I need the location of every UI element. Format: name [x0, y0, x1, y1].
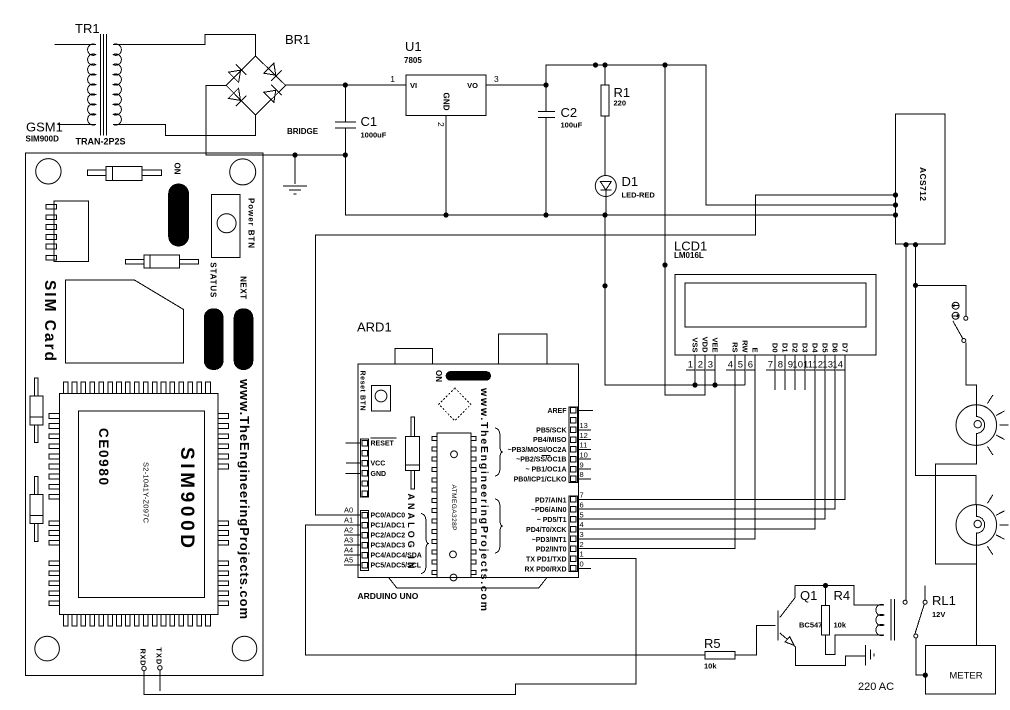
wire LCD pin13 D6 to Arduino pin6	[577, 355, 835, 509]
wire stub VCC	[346, 462, 361, 464]
svg-text:Reset BTN: Reset BTN	[359, 371, 366, 411]
node junction dot U1 GND at rail	[443, 212, 448, 217]
svg-text:10k: 10k	[704, 662, 717, 671]
svg-text:STATUS: STATUS	[209, 262, 218, 298]
svg-text:VI: VI	[410, 81, 417, 90]
brace PB group	[495, 428, 503, 476]
svg-text:BC547: BC547	[799, 621, 822, 630]
svg-text:TXD: TXD	[155, 647, 164, 665]
svg-text:D0: D0	[771, 343, 780, 353]
svg-text:6: 6	[580, 500, 584, 509]
svg-text:D6: D6	[831, 343, 840, 353]
svg-text:RL1: RL1	[932, 593, 956, 608]
svg-text:ON: ON	[434, 370, 443, 382]
IC pins right	[471, 437, 476, 575]
svg-text:12V: 12V	[932, 610, 945, 619]
svg-text:PB5/SCK: PB5/SCK	[536, 427, 566, 434]
resistor R4	[822, 586, 884, 655]
svg-text:D3: D3	[801, 343, 810, 353]
resistor on board top	[88, 166, 162, 180]
right header connector bottom (7-0)	[569, 496, 578, 572]
node junction dot VO/C2	[543, 82, 548, 87]
svg-text:LM016L: LM016L	[674, 251, 704, 260]
svg-text:Q1: Q1	[800, 588, 817, 603]
svg-text:RX PD0/RXD: RX PD0/RXD	[524, 566, 566, 573]
wire Arduino A1 to R5	[305, 525, 704, 655]
svg-text:PB4/MISO: PB4/MISO	[533, 437, 567, 444]
relay RL1 coil	[876, 599, 895, 640]
svg-text:4: 4	[728, 360, 733, 371]
svg-text:PD2/INT0: PD2/INT0	[536, 547, 567, 554]
svg-text:~PB3/MOSI/OC2A: ~PB3/MOSI/OC2A	[508, 447, 567, 454]
svg-text:PC5/ADC5/SCL: PC5/ADC5/SCL	[371, 563, 422, 570]
lamp L2 rays	[987, 495, 1008, 555]
svg-text:GND: GND	[371, 471, 387, 478]
svg-text:A1: A1	[344, 516, 353, 525]
svg-text:PC4/ADC4/SDA: PC4/ADC4/SDA	[371, 553, 422, 560]
left header connector top (RESET/VCC/GND)	[361, 439, 369, 497]
ground symbol near module	[283, 155, 307, 194]
svg-text:BR1: BR1	[285, 32, 310, 47]
svg-text:BRIDGE: BRIDGE	[287, 127, 319, 136]
svg-text:220 AC: 220 AC	[858, 681, 894, 693]
node junction dots on top rail	[593, 62, 598, 67]
svg-text:10: 10	[792, 360, 803, 371]
wire LCD pin12 D5 to Arduino pin5	[577, 355, 825, 519]
IC pins left	[432, 437, 437, 575]
ON LED black pill	[168, 184, 189, 247]
svg-text:C2: C2	[561, 105, 578, 120]
wire switch to lamp1	[966, 343, 977, 405]
wire secondary bottom to bridge bottom vertex	[113, 115, 255, 135]
svg-text:D1: D1	[781, 343, 790, 353]
svg-text:8: 8	[778, 360, 783, 371]
svg-text:LED-RED: LED-RED	[622, 191, 656, 200]
svg-text:ACS712: ACS712	[918, 167, 928, 201]
svg-text:8: 8	[580, 470, 584, 479]
svg-text:ATMEGA328P: ATMEGA328P	[450, 485, 457, 531]
svg-text:METER: METER	[949, 671, 982, 682]
mounting hole top-right	[230, 159, 256, 185]
svg-text:www.TheEngineeringProjects.com: www.TheEngineeringProjects.com	[237, 378, 252, 619]
wire LCD pin11 D4 to Arduino pin4	[577, 355, 815, 529]
svg-text:D7: D7	[841, 343, 850, 353]
Arduino ARD1	[344, 320, 593, 612]
wire stub pin0	[577, 567, 591, 569]
svg-text:S2-1041Y-Z097C: S2-1041Y-Z097C	[142, 462, 151, 524]
svg-text:1: 1	[688, 360, 693, 371]
arduino board outline	[358, 364, 579, 578]
SIM card outline	[65, 280, 183, 363]
node dot on VDD branch	[662, 262, 667, 267]
svg-text:RESET: RESET	[371, 441, 395, 448]
svg-text:RW: RW	[741, 340, 750, 353]
node junction dot C2 bottom	[543, 212, 548, 217]
wire stub GND	[346, 472, 361, 474]
svg-text:ARD1: ARD1	[357, 320, 392, 335]
svg-text:3: 3	[708, 360, 713, 371]
LED D1	[595, 174, 655, 215]
ground symbol 220AC side	[866, 645, 874, 665]
wire stub LCD pin8 D1	[784, 355, 786, 390]
node dot pin3 at ground line	[712, 382, 717, 387]
svg-text:TRAN-2P2S: TRAN-2P2S	[76, 136, 126, 146]
svg-text:A4: A4	[344, 546, 353, 555]
svg-text:~PD6/AIN0: ~PD6/AIN0	[531, 507, 567, 514]
svg-text:PC2/ADC2: PC2/ADC2	[371, 533, 406, 540]
wire ACS712 load pin1 down to relay switch	[905, 245, 907, 600]
wire U1 GND pin down to ground rail	[445, 116, 447, 216]
svg-text:PC0/ADC0: PC0/ADC0	[371, 513, 406, 520]
svg-text:Power BTN: Power BTN	[247, 198, 256, 248]
svg-text:100uF: 100uF	[561, 121, 583, 130]
svg-text:10k: 10k	[834, 621, 847, 630]
capacitor on board left 2	[30, 477, 43, 542]
node junction dot D1 bottom at rail	[602, 212, 607, 217]
digital upper numbers	[580, 421, 588, 479]
chip left pins	[49, 414, 60, 606]
microcontroller IC ATMEGA328	[437, 433, 471, 581]
LCD pin name labels	[691, 337, 850, 354]
right header labels lower	[524, 497, 566, 573]
svg-text:PB0/ICP1/CLKO: PB0/ICP1/CLKO	[514, 476, 567, 483]
lamp L1	[956, 395, 1009, 455]
svg-text:6: 6	[748, 360, 753, 371]
svg-text:2: 2	[436, 122, 446, 127]
svg-text:SIM900D: SIM900D	[26, 135, 60, 144]
labels analog port names	[371, 513, 422, 570]
wire stub LCD pin10 D3	[804, 355, 806, 390]
wire stub AREF	[577, 409, 593, 411]
chip top pins	[63, 382, 210, 394]
transformer secondary winding	[113, 44, 121, 125]
GSM module SIM900D board	[25, 153, 263, 691]
bridge rectifier BR1	[226, 32, 319, 136]
lamp L2	[956, 495, 1009, 555]
wire +5V top rail	[546, 65, 896, 205]
svg-text:VSS: VSS	[691, 337, 700, 352]
svg-text:R5: R5	[704, 636, 721, 651]
svg-text:4: 4	[580, 520, 584, 529]
node dots ACS712 left pins	[893, 192, 898, 197]
wire TXD stub	[159, 670, 161, 691]
current sensor ACS712	[896, 114, 946, 244]
node dot at METER left	[923, 673, 928, 678]
svg-text:VEE: VEE	[711, 337, 720, 352]
wire bridge right vertex to U1 VI	[286, 84, 406, 86]
svg-text:A2: A2	[344, 526, 353, 535]
mounting hole top-left	[36, 159, 61, 184]
wire secondary top to bridge top vertex	[113, 35, 255, 57]
digital lower numbers	[580, 491, 584, 569]
wire bridge left vertex down to ground run	[206, 85, 345, 155]
node dot on ground branch	[602, 283, 607, 288]
regulator U1 7805	[390, 39, 546, 215]
reset button	[372, 386, 391, 411]
node dot R4 top	[823, 583, 828, 588]
node junction dot ground tap	[292, 152, 297, 157]
power button	[212, 194, 241, 257]
wire LCD pin4 RS to Arduino pin2	[577, 355, 735, 549]
svg-text:PD7/AIN1: PD7/AIN1	[535, 497, 567, 504]
svg-text:7805: 7805	[404, 56, 422, 65]
crystal diamond	[439, 388, 471, 421]
wire LCD pin6 E to Arduino pin3	[577, 355, 755, 539]
LCD pin number tick marks	[686, 369, 845, 371]
svg-text:220: 220	[614, 99, 627, 108]
transformer core	[100, 34, 106, 135]
svg-text:7: 7	[768, 360, 773, 371]
svg-text:1: 1	[580, 550, 584, 559]
left header connector analog A0-A5	[361, 511, 369, 571]
svg-text:~PD3/INT1: ~PD3/INT1	[532, 537, 567, 544]
svg-text:ARDUINO UNO: ARDUINO UNO	[358, 591, 419, 601]
chip right pins	[218, 414, 229, 606]
transformer TR1	[55, 21, 126, 146]
wire lamps common down to METER	[975, 545, 977, 645]
diode D-TR (top to right)	[263, 63, 281, 81]
svg-text:12: 12	[812, 360, 823, 371]
svg-text:PC3/ADC3: PC3/ADC3	[371, 543, 406, 550]
wire Arduino TX to SIM RXD	[144, 559, 636, 695]
wire +5V branch to LCD VDD	[665, 65, 705, 395]
svg-text:2: 2	[698, 360, 703, 371]
brace analog group	[421, 514, 429, 574]
svg-text:C1: C1	[361, 114, 378, 129]
wire stub LCD pin7 D0	[774, 355, 776, 390]
svg-text:3: 3	[580, 530, 584, 539]
svg-text:AREF: AREF	[547, 408, 567, 415]
node dots ACS712 bottom pins	[903, 242, 908, 247]
diode D-BL (left to bottom)	[228, 88, 246, 106]
svg-text:TR1: TR1	[75, 21, 100, 36]
wire U1 VO to C2 node	[486, 84, 546, 86]
arduino usb tab	[498, 334, 547, 364]
capacitor C2	[538, 85, 583, 215]
transistor Q1 BC547	[778, 586, 865, 666]
right header connector top (AREF,13-8)	[569, 407, 578, 483]
transformer primary winding	[88, 44, 96, 125]
svg-text:R4: R4	[834, 588, 851, 603]
svg-text:TX PD1/TXD: TX PD1/TXD	[526, 557, 566, 564]
digital upper stubs 13-8	[577, 430, 591, 479]
antenna connector	[46, 201, 88, 261]
mounting hole bottom-right	[232, 636, 257, 661]
svg-text:A0: A0	[344, 506, 353, 515]
svg-text:12: 12	[580, 431, 588, 440]
svg-text:E: E	[751, 347, 760, 352]
svg-text:VO: VO	[467, 81, 478, 90]
svg-text:D2: D2	[791, 343, 800, 353]
svg-text:14: 14	[832, 360, 843, 371]
meter box	[925, 646, 995, 695]
svg-text:GND: GND	[442, 93, 451, 111]
labels RESET VCC GND	[371, 438, 397, 478]
diode component on board	[405, 417, 419, 489]
arduino power jack tab	[395, 349, 433, 364]
svg-text:13: 13	[580, 421, 588, 430]
diode D-TL (left to top)	[228, 64, 246, 82]
wire ACS712 load pin2 down to lamp2	[916, 245, 977, 505]
svg-text:11: 11	[580, 441, 588, 450]
mounting hole bottom-left	[35, 636, 60, 661]
svg-text:A5: A5	[344, 556, 353, 565]
wire LCD pin3 VEE	[714, 355, 716, 385]
svg-text:NEXT: NEXT	[239, 276, 248, 299]
wire lamp1 bottom loop to lamp2 bottom	[936, 445, 977, 564]
svg-text:RXD: RXD	[139, 649, 148, 667]
bridge diamond outline	[226, 56, 286, 115]
diode D-BR (bottom to right)	[263, 85, 281, 103]
svg-text:VCC: VCC	[371, 461, 386, 468]
chip bottom pins	[63, 615, 210, 627]
svg-text:10: 10	[580, 450, 588, 459]
wire LCD pin2 VDD	[704, 355, 706, 395]
arduino bottom flap	[389, 578, 547, 589]
svg-text:PC1/ADC1: PC1/ADC1	[371, 523, 406, 530]
svg-text:5: 5	[580, 510, 584, 519]
wire collector rail	[795, 586, 884, 606]
wire LCD pin14 D7 to Arduino pin7	[577, 355, 845, 499]
capacitor on board left 1	[30, 378, 43, 443]
svg-text:5: 5	[738, 360, 743, 371]
svg-text:A3: A3	[344, 536, 353, 545]
svg-text:7: 7	[580, 491, 584, 500]
lamp L1 rays	[987, 395, 1008, 455]
on LED pill	[446, 371, 491, 381]
svg-text:1: 1	[390, 74, 395, 84]
svg-text:13: 13	[822, 360, 833, 371]
svg-text:0: 0	[580, 560, 584, 569]
LCD1 LM016L	[674, 239, 876, 356]
svg-text:D5: D5	[821, 343, 830, 353]
LCD pin number labels 1-14	[688, 360, 843, 371]
svg-text:SIM Card: SIM Card	[41, 280, 58, 361]
svg-text:1000uF: 1000uF	[361, 131, 387, 140]
status button pill	[204, 308, 224, 370]
resistor R1	[601, 65, 630, 176]
svg-text:2: 2	[580, 540, 584, 549]
wire LCD pin5 RW to ground line	[744, 355, 746, 385]
svg-text:PD4/T0/XCK: PD4/T0/XCK	[526, 527, 566, 534]
next button pill	[234, 308, 254, 370]
wire stub RESET	[346, 442, 361, 444]
svg-text:VDD: VDD	[701, 337, 710, 353]
wire relay contact to METER	[916, 638, 926, 675]
resistor on board second	[126, 255, 199, 268]
svg-text:GSM1: GSM1	[26, 120, 63, 135]
svg-text:3: 3	[494, 74, 499, 84]
wire C1 bottom to ground rail	[345, 155, 895, 215]
relay RL1 contact	[903, 585, 956, 638]
svg-text:9: 9	[580, 460, 584, 469]
svg-text:~ PD5/T1: ~ PD5/T1	[537, 517, 567, 524]
node dot switch branch	[913, 283, 918, 288]
wire stub LCD pin9 D2	[794, 355, 796, 390]
svg-text:~ PB1/OC1A: ~ PB1/OC1A	[525, 467, 566, 474]
wire ACS712 output to Arduino A0	[315, 195, 895, 515]
wire ground branch down to LCD VSS/VEE/RW	[605, 215, 745, 385]
svg-text:D1: D1	[622, 174, 639, 189]
resistor R5	[704, 626, 776, 671]
node junction dot C1 bottom	[343, 152, 348, 157]
capacitor C1	[335, 85, 387, 155]
wire branch to lamp switch	[916, 285, 966, 316]
switch SW1 (lamp1 switch)	[952, 302, 968, 342]
svg-text:D4: D4	[811, 343, 820, 353]
svg-text:ON: ON	[173, 163, 182, 175]
svg-text:~PB2/SS/OC1B: ~PB2/SS/OC1B	[516, 457, 566, 464]
labels A0-A5 with stub wires	[344, 506, 361, 566]
wire primary bottom lead (GSM1 side)	[58, 123, 96, 125]
svg-text:RS: RS	[731, 342, 740, 352]
right header labels upper	[508, 408, 568, 483]
node dot pin1 at ground line	[692, 382, 697, 387]
brace PD group	[495, 499, 503, 553]
SIM900D chip body	[59, 393, 218, 614]
node junction dot C1 top	[343, 82, 348, 87]
wire primary top lead	[55, 44, 96, 46]
svg-text:U1: U1	[405, 39, 422, 54]
wire LCD pin1 VSS	[694, 355, 696, 385]
